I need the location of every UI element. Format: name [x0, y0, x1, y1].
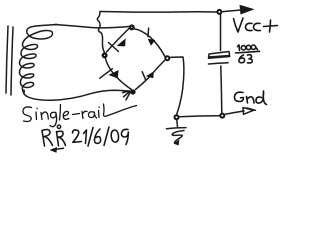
node: Vcc tap — [217, 10, 221, 14]
junction: ground rail right — [220, 114, 224, 118]
label C1 value 1000/63 — [236, 45, 260, 63]
wire: capacitor to ground rail — [221, 66, 222, 113]
annotation: arrow under initials — [50, 147, 64, 153]
capacitor C1 plate 2 (bottom line) — [209, 63, 229, 64]
diode D2 (bridge top-right edge) — [133, 28, 165, 56]
wire: ground rail (bottom horizontal) — [179, 116, 220, 117]
wire: bridge right node to ground-rail left junction — [169, 57, 184, 115]
wire: Vcc arrow — [222, 5, 255, 15]
wire: corner down to bridge left node — [98, 29, 104, 53]
diode D3 (bridge bottom-left edge) — [100, 57, 132, 90]
label Gnd — [234, 91, 266, 105]
junction: ground rail left — [175, 115, 179, 119]
transformer core line 2 — [11, 27, 13, 95]
diode D1 (bridge top-left edge) — [107, 29, 130, 53]
label Vcc+ — [234, 18, 278, 32]
annotation: Single-rail — [23, 104, 137, 127]
wire: Vcc node down to capacitor — [220, 15, 222, 51]
wire: top rail to Vcc node — [100, 11, 217, 14]
ground symbol — [167, 120, 187, 146]
wire: Gnd arrow — [225, 108, 256, 115]
wire: riser from wire corner up to top rail — [97, 12, 100, 28]
transformer core line 1 — [6, 26, 8, 93]
capacitor C1 plate 1 (top box) — [209, 52, 230, 59]
wire: secondary top lead to bridge top node — [55, 25, 129, 28]
annotation: RB initials — [42, 125, 66, 146]
annotation: date 21/6/09 — [73, 127, 129, 146]
node: bridge left — [103, 54, 107, 58]
node: bridge top — [130, 26, 134, 30]
transformer secondary winding — [19, 25, 57, 93]
node: bridge right — [165, 56, 169, 60]
wire: secondary bottom lead swoosh with arrowhead to bridge bottom — [23, 90, 130, 100]
node: bridge bottom — [130, 89, 135, 94]
diode D4 (bridge bottom-right edge) — [136, 61, 165, 90]
